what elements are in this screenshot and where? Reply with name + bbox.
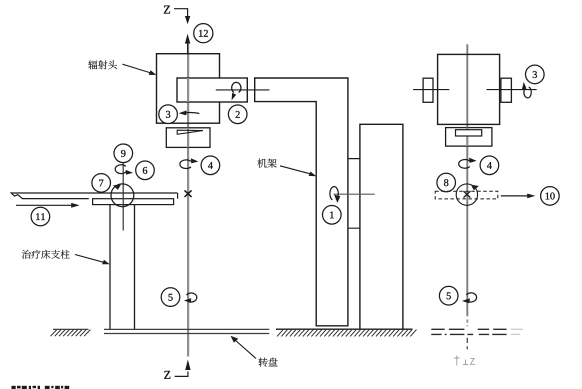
rotation loop 6	[115, 165, 126, 174]
leader arrow to column	[75, 255, 105, 263]
collimator (side view)	[446, 128, 492, 147]
circle 10	[541, 187, 560, 206]
axis dashes below cross	[466, 338, 468, 350]
floor dash-dot line row 1	[431, 328, 506, 330]
label: gantry (机架)	[257, 159, 266, 168]
axis dashes below solid (right)	[466, 320, 468, 327]
couch rotation axis line (vertical)	[122, 163, 124, 231]
rotation loop 5 (right)	[466, 293, 476, 302]
gantry C-arm outline	[255, 78, 348, 326]
arrow for rotation 3 (collimator)	[186, 112, 199, 115]
circle 4	[201, 156, 220, 175]
ground line + hatch (gantry)	[276, 328, 413, 330]
rotation loop 4	[180, 160, 191, 169]
isocenter cross (right)	[464, 191, 471, 198]
isocenter cross (left)	[185, 190, 192, 197]
wire Z-top leader	[174, 9, 188, 16]
circle 3	[159, 105, 178, 124]
beam axis (left figure vertical centerline)	[187, 44, 189, 357]
couch table top	[11, 193, 177, 199]
circle 7	[92, 174, 111, 193]
gantry bearing ticks	[348, 159, 360, 229]
leader arrow to radiation head	[123, 64, 152, 73]
label: turntable (转盘)	[259, 358, 268, 367]
wedge filter symbol	[177, 130, 203, 134]
arrow down on Z axis	[185, 16, 190, 24]
circle 6	[136, 161, 155, 180]
couch bracket	[93, 199, 174, 205]
circle 11	[31, 207, 50, 226]
right trunnion	[501, 78, 512, 102]
collimator box (front view)	[166, 128, 210, 148]
radiation head box (front view)	[157, 54, 220, 124]
Z axis label (top)	[164, 6, 170, 14]
rotation loop 3 (right)	[524, 87, 531, 98]
rotation loop 1	[330, 187, 338, 200]
rotation loop 5 (left)	[186, 293, 196, 302]
beam axis (right figure)	[466, 44, 468, 316]
arrow up on Z axis	[185, 34, 190, 44]
rotation 2 axis line	[216, 89, 270, 91]
floor dash-dot line row 2	[431, 333, 506, 335]
circle 12	[194, 24, 213, 43]
Z axis label (bottom)	[175, 372, 188, 377]
circle 5 (right)	[439, 286, 458, 305]
label: couch support column (治疗床支柱)	[22, 250, 31, 259]
circle 5 (left)	[161, 288, 180, 307]
bottom-left clipped caption fragments	[12, 386, 70, 389]
arrow to circle 10	[501, 195, 530, 197]
left trunnion	[423, 78, 433, 102]
arrow 11 (longitudinal)	[16, 204, 74, 206]
rotation loop 2	[232, 82, 241, 92]
turntable (double line)	[104, 328, 269, 330]
circle 3 (right)	[526, 65, 545, 84]
dashed couch-lat rectangle	[435, 191, 498, 199]
circle 1	[323, 206, 342, 225]
rotation circle 8	[456, 184, 477, 205]
leader arrow to turntable	[235, 340, 257, 359]
rotation circle 7	[111, 184, 134, 207]
couch support column	[110, 205, 135, 330]
rotation loop 4 (right)	[459, 160, 470, 169]
leader arrow to gantry	[280, 166, 312, 174]
head box (side view)	[438, 54, 500, 124]
gantry rotation axis line	[334, 193, 375, 195]
label: radiation head (辐射头)	[88, 60, 97, 69]
small gray label below right figure	[454, 356, 475, 366]
circle 8	[437, 173, 456, 192]
circle 2	[228, 105, 247, 124]
circle 4 (right)	[480, 156, 499, 175]
circle 9	[114, 144, 133, 163]
gantry stand column	[360, 124, 403, 329]
arm housing box	[177, 78, 247, 102]
ground hatch (left)	[53, 328, 89, 330]
